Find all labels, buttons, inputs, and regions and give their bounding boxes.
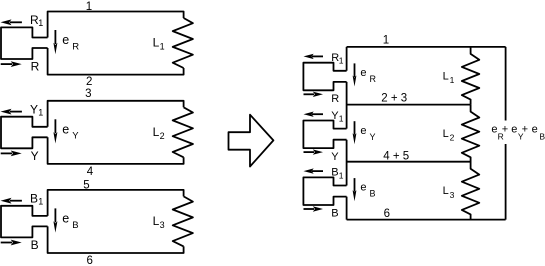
block arrow (transformation)	[229, 115, 274, 167]
svg-text:4 + 5: 4 + 5	[383, 151, 409, 163]
svg-text:B: B	[30, 191, 38, 205]
svg-text:R: R	[370, 74, 377, 84]
svg-text:1: 1	[38, 107, 43, 117]
wire rail 4+5	[347, 161, 471, 163]
svg-text:B: B	[31, 238, 39, 252]
svg-text:1: 1	[339, 56, 344, 66]
svg-text:L: L	[443, 70, 449, 82]
source box Y phase generator	[1, 117, 48, 149]
svg-text:1: 1	[38, 18, 43, 28]
svg-text:3: 3	[450, 190, 455, 200]
source box B (combined circuit)	[303, 177, 346, 205]
wire left bus (segmented at sources)	[346, 47, 348, 220]
svg-text:L: L	[153, 36, 160, 50]
emf arrow e_B (points down)	[54, 208, 56, 222]
svg-text:Y: Y	[30, 102, 38, 116]
current arrow terminal Y (points right)	[304, 151, 315, 153]
source box R (combined circuit)	[303, 63, 346, 91]
svg-text:L: L	[153, 214, 160, 228]
current arrow terminal Y (points right)	[1, 152, 12, 154]
wire bottom (loop B)	[48, 226, 184, 253]
svg-text:4: 4	[87, 166, 94, 178]
svg-text:B: B	[72, 220, 78, 231]
inductor L1 (combined circuit)	[462, 47, 480, 105]
svg-text:Y: Y	[72, 131, 79, 142]
svg-text:L: L	[443, 185, 449, 197]
source box B phase generator	[1, 206, 48, 238]
svg-text:Y: Y	[370, 132, 376, 142]
inductor L3 (combined circuit)	[462, 162, 480, 220]
svg-text:1: 1	[160, 42, 165, 52]
current arrow terminal B (points right)	[1, 242, 12, 244]
svg-text:1: 1	[339, 170, 344, 180]
svg-text:L: L	[153, 125, 160, 139]
wire right side (total emf branch)	[505, 47, 507, 220]
svg-text:1: 1	[450, 75, 455, 85]
svg-text:e: e	[491, 124, 497, 136]
wire rail 6 (bottom)	[347, 219, 506, 221]
wire bottom (loop Y)	[48, 137, 184, 164]
svg-text:e: e	[511, 124, 517, 136]
svg-text:2: 2	[86, 76, 92, 88]
emf arrow e_R (points down)	[354, 63, 356, 77]
svg-text:e: e	[62, 33, 69, 47]
svg-text:R: R	[331, 93, 339, 105]
svg-text:1: 1	[86, 1, 92, 13]
svg-text:6: 6	[86, 255, 92, 266]
inductor L1	[173, 18, 193, 68]
svg-text:2: 2	[450, 133, 455, 143]
svg-text:6: 6	[384, 208, 390, 220]
svg-text:B: B	[370, 189, 376, 199]
svg-text:R: R	[31, 60, 40, 74]
source box Y (combined circuit)	[303, 121, 346, 149]
svg-text:R: R	[72, 41, 79, 52]
current arrow terminal R1 (points left)	[10, 21, 22, 23]
current arrow terminal R (points right)	[304, 93, 315, 95]
inductor L2 (combined circuit)	[462, 105, 480, 163]
wire top (loop Y)	[48, 101, 184, 127]
wire rail 2+3	[347, 104, 471, 106]
svg-text:e: e	[360, 125, 366, 137]
svg-text:+: +	[522, 123, 528, 135]
svg-text:3: 3	[160, 220, 165, 230]
current arrow terminal B1 (points left)	[312, 170, 323, 172]
current arrow terminal R1 (points left)	[312, 55, 323, 57]
current arrow terminal B (points right)	[304, 208, 315, 210]
emf arrow e_Y (points down)	[354, 121, 356, 135]
svg-text:B: B	[539, 131, 545, 141]
current arrow terminal Y1 (points left)	[312, 113, 323, 115]
svg-text:e: e	[360, 182, 366, 194]
current arrow terminal B1 (points left)	[10, 200, 22, 202]
svg-text:+: +	[502, 123, 508, 135]
svg-text:e: e	[532, 124, 538, 136]
svg-text:1: 1	[38, 196, 43, 206]
svg-text:5: 5	[83, 180, 89, 192]
svg-text:2: 2	[160, 131, 165, 141]
inductor L2	[173, 107, 193, 157]
svg-text:B: B	[331, 208, 338, 220]
inductor L3	[173, 196, 193, 246]
emf arrow e_Y (points down)	[54, 119, 56, 133]
current arrow terminal R (points right)	[1, 63, 12, 65]
wire top (loop R)	[48, 12, 184, 38]
svg-text:2 + 3: 2 + 3	[381, 92, 407, 104]
svg-text:e: e	[62, 211, 69, 225]
emf arrow e_R (points down)	[54, 30, 56, 44]
emf arrow e_B (points down)	[354, 178, 356, 192]
wire bottom (loop R)	[48, 48, 184, 75]
svg-text:e: e	[62, 122, 69, 136]
wire rail 1 (top)	[347, 46, 506, 48]
svg-text:e: e	[360, 67, 366, 79]
svg-text:1: 1	[339, 114, 344, 124]
svg-text:L: L	[443, 128, 449, 140]
svg-text:Y: Y	[331, 151, 339, 163]
wire top (loop B)	[48, 190, 184, 216]
svg-text:Y: Y	[31, 149, 39, 163]
source box R phase generator	[1, 27, 48, 59]
svg-text:3: 3	[85, 88, 91, 100]
current arrow terminal Y1 (points left)	[10, 111, 22, 113]
svg-text:1: 1	[383, 35, 389, 47]
label total emf e_R + e_Y + e_B	[490, 121, 545, 145]
svg-text:B: B	[331, 167, 338, 179]
